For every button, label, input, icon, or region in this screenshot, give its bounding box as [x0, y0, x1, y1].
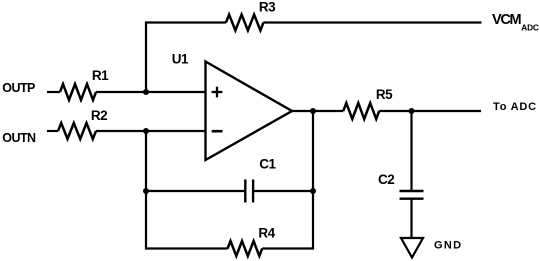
- svg-text:C2: C2: [378, 172, 394, 187]
- wire node to C2 top plate: [410, 111, 412, 191]
- label R1: [92, 68, 109, 83]
- label GND: [434, 239, 462, 251]
- resistor R1: [60, 84, 96, 100]
- svg-text:OUTN: OUTN: [2, 131, 36, 145]
- op-amp U1: [206, 62, 293, 161]
- label C2: [378, 172, 394, 187]
- wire OUTP to R1: [47, 91, 60, 93]
- label R5: [376, 87, 393, 102]
- capacitor C1: [245, 180, 253, 203]
- label R3: [259, 0, 276, 15]
- wire C1 left segment: [146, 190, 245, 192]
- node junction C2 top: [409, 108, 415, 114]
- wire R4 left segment: [146, 247, 228, 249]
- wire R2 to U1 inverting input: [96, 130, 206, 132]
- wire top: node +IN up to R3 left: [146, 23, 226, 93]
- label R2: [91, 108, 107, 123]
- label R4: [258, 225, 275, 240]
- wire R1 to U1 noninverting input: [96, 91, 206, 93]
- svg-text:C1: C1: [259, 157, 276, 172]
- ground: [401, 238, 423, 258]
- wire OUTN to R2: [47, 130, 58, 132]
- node junction C1 left: [143, 188, 149, 194]
- wire U1 output to R5: [292, 110, 343, 112]
- svg-text:OUTP: OUTP: [2, 81, 35, 95]
- wire -IN down to feedback: [145, 131, 147, 250]
- node junction C1 right: [310, 188, 316, 194]
- svg-text:ADC: ADC: [521, 22, 539, 32]
- capacitor C2: [400, 191, 424, 199]
- wire output node down to feedback: [312, 111, 314, 250]
- label OUTP port: [2, 81, 35, 95]
- label OUTN port: [2, 131, 36, 145]
- label U1: [172, 52, 189, 67]
- wire R3 to VCM_ADC: [264, 21, 482, 23]
- svg-text:VCM: VCM: [492, 12, 522, 28]
- resistor R5: [343, 103, 379, 119]
- resistor R2: [58, 123, 96, 139]
- resistor R4: [228, 241, 263, 256]
- label C1: [259, 157, 276, 172]
- wire C2 bottom plate to ground: [410, 199, 412, 238]
- wire R5 to To ADC: [379, 110, 481, 112]
- svg-text:GND: GND: [434, 239, 462, 251]
- svg-text:R4: R4: [258, 225, 275, 240]
- wire C1 right segment: [253, 190, 313, 192]
- label VCM_ADC net: [492, 12, 539, 32]
- svg-text:R1: R1: [92, 68, 109, 83]
- node junction -IN: [143, 128, 149, 134]
- node junction +IN: [143, 89, 149, 95]
- svg-text:To ADC: To ADC: [493, 101, 537, 113]
- svg-text:R5: R5: [376, 87, 393, 102]
- svg-text:U1: U1: [172, 52, 189, 67]
- resistor R3: [226, 15, 264, 31]
- svg-text:R3: R3: [259, 0, 276, 15]
- node junction output: [310, 108, 316, 114]
- svg-text:R2: R2: [91, 108, 107, 123]
- label To ADC net: [493, 101, 537, 113]
- wire R4 right segment: [262, 247, 313, 249]
